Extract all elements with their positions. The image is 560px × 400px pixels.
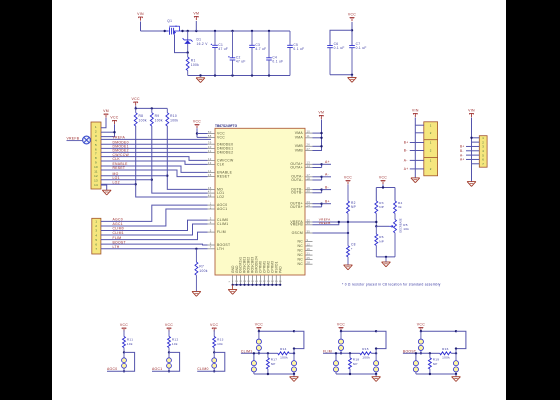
svg-text:21: 21 bbox=[307, 252, 311, 256]
svg-text:47 uF: 47 uF bbox=[218, 47, 228, 51]
svg-text:9: 9 bbox=[307, 238, 309, 242]
svg-text:4: 4 bbox=[210, 220, 212, 224]
svg-text:VM: VM bbox=[103, 109, 109, 113]
net AGC1 wire bbox=[101, 209, 208, 226]
capacitor C6 0.1uF bbox=[327, 42, 344, 75]
power flag VIN bbox=[137, 12, 144, 21]
svg-text:2: 2 bbox=[95, 129, 97, 133]
svg-text:46: 46 bbox=[208, 186, 212, 190]
wire bottom rail BOOST block bbox=[416, 373, 457, 375]
jumper AGC1 pins bbox=[167, 351, 172, 372]
power flag VCC (R11) bbox=[120, 323, 128, 332]
svg-text:0.1 uF: 0.1 uF bbox=[293, 47, 304, 51]
net A+ wire to J4 bbox=[460, 158, 472, 162]
ground symbol C6/C7 bbox=[348, 75, 357, 83]
svg-text:A-: A- bbox=[325, 173, 329, 177]
svg-text:6: 6 bbox=[210, 241, 212, 245]
svg-text:18: 18 bbox=[307, 176, 311, 180]
wire VCC to U1 VCC pins bbox=[196, 128, 208, 137]
wire VIN rail left of Q1 bbox=[141, 30, 169, 32]
svg-text:LTH: LTH bbox=[217, 247, 224, 251]
ground symbol BOOST block bbox=[452, 374, 461, 382]
wire AGC0 bypass loop bbox=[124, 352, 135, 371]
svg-text:28: 28 bbox=[307, 261, 311, 265]
wire VM to VMA/VMB pins bbox=[313, 120, 323, 152]
svg-text:LO1: LO1 bbox=[113, 176, 120, 180]
net A- wire to J3 bbox=[404, 159, 424, 163]
svg-text:0.1 uF: 0.1 uF bbox=[356, 46, 367, 50]
svg-text:OUTB+: OUTB+ bbox=[290, 205, 303, 209]
net ENABLE wire bbox=[101, 162, 208, 172]
svg-text:4: 4 bbox=[95, 138, 97, 142]
svg-text:27: 27 bbox=[307, 147, 311, 151]
svg-text:12: 12 bbox=[307, 242, 311, 246]
net BOOST wire bbox=[101, 240, 208, 245]
resistor R2 NP bbox=[347, 184, 357, 233]
resistor R17 NP bbox=[266, 353, 277, 374]
net B- wire to J4 bbox=[460, 149, 472, 153]
resistor R13 10k bbox=[213, 330, 224, 352]
wire bottom rail CLIM1 block bbox=[254, 373, 295, 375]
svg-text:CLK: CLK bbox=[113, 157, 121, 161]
wire bypass FLIM block bbox=[375, 331, 386, 350]
svg-text:VREFB: VREFB bbox=[319, 221, 331, 225]
svg-text:45: 45 bbox=[208, 173, 212, 177]
svg-text:10k: 10k bbox=[172, 342, 178, 346]
jumper FLIM right pins bbox=[374, 349, 379, 374]
svg-text:FLIM: FLIM bbox=[323, 349, 332, 353]
svg-text:A+: A+ bbox=[460, 158, 465, 162]
wire R9 column to LO1 pin bbox=[151, 126, 208, 193]
jumper BOOST lower-left pins bbox=[413, 352, 418, 374]
wire AGC1 bypass loop bbox=[169, 352, 180, 371]
svg-text:13: 13 bbox=[94, 179, 98, 183]
svg-text:2: 2 bbox=[430, 131, 432, 135]
svg-text:NC: NC bbox=[298, 253, 304, 257]
resistor R9 100k bbox=[150, 108, 163, 126]
power flag VCC (J1) bbox=[110, 116, 118, 125]
net DMODE2 wire bbox=[101, 149, 208, 153]
svg-text:AGC0: AGC0 bbox=[113, 218, 123, 222]
net CLIM1 label bbox=[241, 349, 268, 353]
wire R10 column to MO pin bbox=[166, 126, 207, 189]
jumper FLIM left pins bbox=[338, 331, 343, 354]
svg-text:48: 48 bbox=[208, 193, 212, 197]
svg-text:NP: NP bbox=[379, 239, 384, 243]
capacitor C5 0.1 uF bbox=[287, 31, 304, 76]
svg-text:VM: VM bbox=[318, 111, 324, 115]
svg-text:1: 1 bbox=[430, 159, 432, 163]
ground symbol J4 bbox=[467, 182, 476, 187]
svg-text:VIN: VIN bbox=[137, 12, 144, 16]
jumper CLIM1 lower-left pins bbox=[251, 352, 256, 374]
U1 left pin stubs and names bbox=[208, 130, 234, 251]
jumper BOOST left pins bbox=[418, 331, 423, 354]
power flag VCC (CLIM1 block) bbox=[255, 323, 263, 332]
jumper CLIM1 right pins bbox=[291, 349, 296, 374]
net B+ wire to J4 bbox=[460, 145, 472, 149]
power flag VCC (U1 logic pins) bbox=[193, 120, 201, 129]
svg-text:11: 11 bbox=[94, 170, 98, 174]
power flag VCC (logic supply) bbox=[348, 13, 356, 22]
svg-text:CLIM0: CLIM0 bbox=[113, 227, 125, 231]
svg-text:16: 16 bbox=[307, 247, 311, 251]
svg-text:TB67S249FTG: TB67S249FTG bbox=[215, 124, 238, 128]
power flag VIN (J4) bbox=[468, 109, 475, 118]
svg-text:CLIM0: CLIM0 bbox=[197, 367, 209, 371]
svg-text:10k: 10k bbox=[217, 342, 223, 346]
node gate/zener junction bbox=[187, 51, 189, 53]
svg-text:39: 39 bbox=[208, 141, 212, 145]
net AGC0 label bbox=[107, 367, 124, 371]
svg-text:VCC: VCC bbox=[217, 136, 225, 140]
U1 bottom GND pin stubs bbox=[231, 256, 283, 285]
net FLIM wire bbox=[101, 232, 208, 240]
wire U1 ground bus bbox=[232, 284, 282, 286]
wire bypass BOOST block bbox=[455, 331, 466, 350]
svg-text:A+: A+ bbox=[404, 167, 409, 171]
capacitor C7 0.1uF bbox=[349, 42, 366, 75]
wire bottom rail FLIM block bbox=[336, 373, 377, 375]
svg-text:100k: 100k bbox=[191, 63, 199, 67]
power flag VCC (R13) bbox=[210, 323, 218, 332]
svg-text:NP: NP bbox=[433, 362, 438, 366]
svg-text:C8: C8 bbox=[351, 243, 356, 247]
power flag VM (U1 motor supply) bbox=[318, 111, 324, 120]
svg-text:CW/CCW: CW/CCW bbox=[113, 153, 130, 157]
svg-text:A+: A+ bbox=[325, 160, 330, 164]
svg-text:NC: NC bbox=[298, 262, 304, 266]
svg-text:10k: 10k bbox=[403, 227, 409, 231]
svg-text:VCC: VCC bbox=[344, 176, 352, 180]
wire VCC to J1 pins 2,3 bbox=[101, 124, 116, 136]
svg-text:26: 26 bbox=[307, 143, 311, 147]
net B+ wire to J3 bbox=[404, 141, 424, 145]
svg-text:VM: VM bbox=[193, 12, 199, 16]
net A- wire to J4 bbox=[460, 153, 472, 157]
net FLIM label bbox=[323, 349, 350, 353]
svg-text:OUTA-: OUTA- bbox=[291, 178, 303, 182]
net LO2 wire bbox=[101, 181, 136, 185]
svg-text:FLIM: FLIM bbox=[113, 236, 122, 240]
wire VIN to rail bbox=[140, 22, 142, 32]
svg-text:DECREASE: DECREASE bbox=[398, 218, 402, 233]
resistor R14 100k bbox=[267, 347, 296, 360]
svg-text:B+: B+ bbox=[325, 200, 330, 204]
resistor R16 100k bbox=[429, 347, 458, 360]
wire top rail FLIM block bbox=[340, 330, 378, 333]
net DMODE0 wire bbox=[101, 140, 208, 144]
net B+ motor output bbox=[313, 200, 332, 207]
svg-text:1: 1 bbox=[95, 125, 97, 129]
svg-text:VCC: VCC bbox=[165, 323, 173, 327]
svg-text:7: 7 bbox=[482, 162, 484, 166]
junction dots bottom rail bbox=[199, 74, 270, 76]
svg-text:44: 44 bbox=[208, 169, 212, 173]
wire VCC stem bbox=[351, 22, 353, 46]
wire VCC rail for pullups bbox=[135, 106, 168, 110]
svg-text:CLIM1: CLIM1 bbox=[113, 231, 125, 235]
resistor R11 10k bbox=[123, 330, 134, 352]
power flag VM (J1) bbox=[103, 109, 109, 118]
svg-text:100k: 100k bbox=[280, 356, 288, 360]
svg-text:VCC: VCC bbox=[255, 323, 263, 327]
ground symbol R7 bbox=[192, 292, 201, 297]
svg-text:10: 10 bbox=[94, 165, 98, 169]
svg-text:10: 10 bbox=[307, 130, 311, 134]
svg-text:VREFA: VREFA bbox=[113, 136, 126, 140]
svg-text:2: 2 bbox=[210, 205, 212, 209]
svg-text:100k: 100k bbox=[155, 119, 163, 123]
svg-text:40: 40 bbox=[208, 145, 212, 149]
wire Q1 gate down to node bbox=[175, 35, 188, 53]
note text C8 assembly bbox=[342, 283, 441, 287]
bottom ground rail of input block bbox=[188, 75, 290, 77]
resistor R4 3k bbox=[394, 201, 403, 220]
wire CLIM0 bypass loop bbox=[214, 352, 225, 371]
connector J1 14-pin header bbox=[91, 122, 101, 189]
svg-text:OUTA+: OUTA+ bbox=[290, 165, 303, 169]
svg-text:BOOST: BOOST bbox=[403, 349, 416, 353]
svg-text:6: 6 bbox=[95, 242, 97, 246]
svg-text:12: 12 bbox=[94, 174, 98, 178]
svg-text:20: 20 bbox=[307, 189, 311, 193]
svg-text:B-: B- bbox=[404, 149, 408, 153]
potentiometer R5 10k bbox=[389, 218, 409, 257]
svg-text:* 0 Ω resistor placed in C8 lo: * 0 Ω resistor placed in C8 location for… bbox=[342, 283, 441, 287]
svg-text:31: 31 bbox=[307, 221, 311, 225]
svg-text:BOOST: BOOST bbox=[113, 240, 126, 244]
svg-text:RESET: RESET bbox=[217, 175, 230, 179]
capacitor C3 4.7 uF bbox=[249, 31, 266, 76]
svg-text:R14: R14 bbox=[280, 347, 287, 351]
wire C6 branch bbox=[330, 30, 352, 45]
wire R8 column to LO2 pin bbox=[135, 126, 208, 197]
svg-text:AGC1: AGC1 bbox=[217, 207, 227, 211]
svg-text:B-: B- bbox=[325, 186, 329, 190]
svg-text:LTH: LTH bbox=[113, 245, 120, 249]
connector J3 three 2-pin blocks bbox=[424, 122, 438, 176]
net CLIM0 wire bbox=[101, 220, 208, 231]
power flag VCC (BOOST block) bbox=[417, 323, 425, 332]
svg-text:25: 25 bbox=[307, 256, 311, 260]
svg-text:100k: 100k bbox=[170, 119, 178, 123]
net CW/CCW wire bbox=[101, 153, 208, 161]
svg-text:47 uF: 47 uF bbox=[236, 60, 246, 64]
U1 right pin stubs and names bbox=[290, 130, 312, 267]
svg-text:B+: B+ bbox=[404, 141, 409, 145]
svg-text:7: 7 bbox=[95, 152, 97, 156]
svg-text:AGC1: AGC1 bbox=[152, 367, 162, 371]
svg-text:100k: 100k bbox=[442, 356, 450, 360]
svg-text:4: 4 bbox=[95, 233, 97, 237]
svg-text:NC: NC bbox=[298, 244, 304, 248]
svg-text:AGC1: AGC1 bbox=[113, 222, 123, 226]
svg-text:A-: A- bbox=[404, 159, 408, 163]
power flag VM bbox=[193, 12, 199, 21]
svg-text:VIN: VIN bbox=[468, 109, 475, 113]
svg-text:NC: NC bbox=[298, 258, 304, 262]
resistor R3 NP bbox=[375, 201, 389, 228]
svg-text:NC: NC bbox=[298, 239, 304, 243]
net CLK wire bbox=[101, 157, 208, 164]
node junction dots on VIN/VM rail bbox=[164, 30, 271, 32]
net VREFA wire from J1 bbox=[101, 136, 211, 140]
resistor R18 NP bbox=[349, 353, 360, 374]
svg-text:NP: NP bbox=[353, 362, 358, 366]
svg-text:16.2 V: 16.2 V bbox=[197, 42, 209, 46]
svg-text:24: 24 bbox=[307, 203, 311, 207]
svg-text:7: 7 bbox=[95, 247, 97, 251]
wire VCC rail R3/R4 bbox=[376, 184, 395, 201]
svg-text:AGC0: AGC0 bbox=[107, 367, 117, 371]
power flag VIN (J3) bbox=[412, 109, 419, 118]
wire bypass CLIM1 block bbox=[293, 331, 304, 350]
svg-text:PAD: PAD bbox=[278, 266, 282, 273]
wire top rail BOOST block bbox=[420, 330, 458, 333]
net CLIM0 label bbox=[197, 367, 214, 371]
ground symbol FLIM block bbox=[372, 374, 381, 382]
wire VM to J1 pin 1 bbox=[101, 118, 106, 128]
ground symbol U1 bbox=[228, 285, 237, 295]
svg-text:1: 1 bbox=[430, 123, 432, 127]
svg-text:VCC: VCC bbox=[120, 323, 128, 327]
svg-text:42: 42 bbox=[208, 157, 212, 161]
svg-text:100k: 100k bbox=[362, 356, 370, 360]
net B- motor output bbox=[313, 186, 332, 193]
resistor R10 100k bbox=[166, 108, 179, 126]
net RESET wire bbox=[101, 166, 208, 176]
power flag VCC (R2) bbox=[344, 176, 352, 185]
svg-text:NP: NP bbox=[379, 205, 384, 209]
wire VIN to J4 bbox=[470, 118, 479, 182]
test point VREFB circle bbox=[67, 136, 92, 144]
net A- motor output bbox=[313, 173, 332, 180]
svg-text:41: 41 bbox=[208, 149, 212, 153]
ground symbol input block bbox=[196, 78, 205, 83]
svg-text:VREFB: VREFB bbox=[290, 223, 303, 227]
svg-text:VCC: VCC bbox=[110, 116, 118, 120]
svg-text:14: 14 bbox=[94, 183, 98, 187]
svg-text:LO2: LO2 bbox=[217, 195, 224, 199]
svg-text:43: 43 bbox=[208, 161, 212, 165]
ground symbol CLIM1 block bbox=[290, 374, 299, 382]
ground symbol divider bbox=[382, 257, 391, 267]
svg-text:VCC: VCC bbox=[379, 176, 387, 180]
svg-text:DMODE2: DMODE2 bbox=[217, 151, 233, 155]
svg-text:VIN: VIN bbox=[412, 109, 419, 113]
svg-text:10k: 10k bbox=[127, 342, 133, 346]
svg-text:VREFB: VREFB bbox=[67, 136, 80, 140]
jumper CLIM0 pins bbox=[212, 351, 217, 372]
svg-text:3: 3 bbox=[95, 229, 97, 233]
svg-text:3: 3 bbox=[95, 134, 97, 138]
net VREFA/VREFB wires to divider bbox=[313, 218, 377, 225]
svg-text:RESET: RESET bbox=[113, 166, 126, 170]
resistor R7 100k bbox=[195, 248, 208, 292]
svg-text:VCC: VCC bbox=[193, 120, 201, 124]
wire top rail CLIM1 block bbox=[258, 330, 296, 333]
svg-text:NC: NC bbox=[298, 248, 304, 252]
power flag VCC (R12) bbox=[165, 323, 173, 332]
ground symbol J1 bbox=[101, 185, 111, 195]
net CLIM1 wire bbox=[101, 224, 208, 235]
net A+ motor output bbox=[313, 160, 332, 167]
svg-text:2: 2 bbox=[430, 149, 432, 153]
connector J4 7-pin header bbox=[479, 136, 487, 168]
op-amp U1 TB67S249FTG driver IC body bbox=[215, 124, 305, 275]
svg-text:NP: NP bbox=[271, 362, 276, 366]
net MO wire bbox=[101, 172, 167, 176]
svg-text:R15: R15 bbox=[362, 347, 369, 351]
wire divider bottom rail bbox=[376, 256, 395, 258]
svg-text:VCC: VCC bbox=[210, 323, 218, 327]
svg-text:35: 35 bbox=[307, 229, 311, 233]
svg-text:0.1 uF: 0.1 uF bbox=[272, 60, 283, 64]
svg-text:OUTB-: OUTB- bbox=[291, 191, 303, 195]
resistor R19 NP bbox=[428, 353, 439, 374]
svg-text:4.7 uF: 4.7 uF bbox=[255, 47, 266, 51]
svg-text:OSCM: OSCM bbox=[292, 231, 303, 235]
svg-text:14: 14 bbox=[307, 164, 311, 168]
svg-text:Q1: Q1 bbox=[167, 19, 172, 23]
wire C6/C7 bottom join bbox=[330, 74, 353, 76]
resistor R8 100k bbox=[134, 108, 147, 126]
svg-text:VCC: VCC bbox=[348, 13, 356, 17]
power flag VCC (FLIM block) bbox=[337, 323, 345, 332]
svg-text:9: 9 bbox=[95, 161, 97, 165]
svg-text:FLIM: FLIM bbox=[217, 230, 226, 234]
svg-text:CLK: CLK bbox=[217, 163, 225, 167]
net LTH wire bbox=[101, 245, 208, 249]
resistor R12 10k bbox=[168, 330, 179, 352]
wire VM stem bbox=[195, 21, 197, 31]
svg-text:VCC: VCC bbox=[132, 97, 140, 101]
svg-text:8: 8 bbox=[95, 156, 97, 160]
svg-text:1: 1 bbox=[95, 220, 97, 224]
svg-text:2: 2 bbox=[430, 167, 432, 171]
connector J2 7-pin header bbox=[92, 218, 101, 254]
svg-text:3k: 3k bbox=[398, 205, 402, 209]
transistor Q1 (PMOS reverse protection) bbox=[165, 19, 183, 35]
resistor R15 100k bbox=[349, 347, 378, 360]
svg-text:VMA: VMA bbox=[295, 131, 304, 135]
wire VM rail from Q1 to C5 bbox=[183, 30, 291, 32]
svg-text:47: 47 bbox=[208, 190, 212, 194]
capacitor C2 47 uF bbox=[228, 31, 246, 76]
capacitor C1 47 uF bbox=[211, 31, 229, 76]
svg-text:5: 5 bbox=[95, 238, 97, 242]
svg-text:11: 11 bbox=[307, 134, 311, 138]
svg-text:VCC: VCC bbox=[337, 323, 345, 327]
svg-text:100k: 100k bbox=[139, 119, 147, 123]
ground symbol J3 bbox=[411, 178, 420, 183]
net AGC0 wire bbox=[101, 205, 208, 222]
svg-text:2: 2 bbox=[95, 224, 97, 228]
svg-text:LO2: LO2 bbox=[113, 181, 120, 185]
svg-text:0.1 uF: 0.1 uF bbox=[334, 46, 345, 50]
svg-text:50: 50 bbox=[208, 130, 212, 134]
svg-text:NP: NP bbox=[351, 205, 356, 209]
svg-text:1: 1 bbox=[210, 202, 212, 206]
power flag VCC (pullups R8-R10) bbox=[132, 97, 140, 106]
svg-text:5: 5 bbox=[210, 229, 212, 233]
jumper AGC0 pins bbox=[122, 351, 127, 372]
power flag VCC (R3/R4) bbox=[379, 176, 387, 185]
net DMODE1 wire bbox=[101, 145, 208, 149]
svg-text:1: 1 bbox=[430, 141, 432, 145]
svg-text:7: 7 bbox=[210, 245, 212, 249]
